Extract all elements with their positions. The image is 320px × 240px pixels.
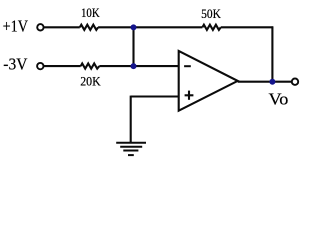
wire node A to node B vertical (132, 27, 134, 66)
terminal input -3V (37, 63, 43, 69)
wire op-amp output to terminal (238, 81, 292, 83)
wire node A to R3 (134, 26, 203, 28)
node B junction (131, 63, 137, 69)
resistor R1 10K (80, 25, 98, 30)
wire op-amp plus input to ground leg (131, 95, 179, 97)
svg-text:-3V: -3V (3, 55, 27, 74)
wire node B to op-amp inverting input (134, 65, 179, 67)
wire -3V terminal to R2 (44, 65, 81, 67)
wire R3 to right corner (221, 26, 273, 28)
wire ground vertical (130, 96, 132, 143)
svg-text:20K: 20K (80, 74, 101, 89)
terminal input +1V (37, 24, 43, 30)
op-amp U1 triangle (179, 51, 238, 111)
ground (116, 143, 146, 155)
terminal output Vo (292, 79, 298, 85)
op-amp minus pin symbol (184, 65, 191, 67)
wire R1 to node A (98, 26, 133, 28)
node A junction (131, 24, 137, 30)
wire +1V terminal to R1 (44, 26, 80, 28)
svg-text:10K: 10K (81, 5, 100, 20)
resistor R3 50K (202, 25, 220, 30)
node C output junction (269, 79, 275, 85)
resistor R2 20K (81, 64, 100, 69)
wire feedback vertical down to node C (271, 26, 273, 81)
svg-text:Vo: Vo (269, 90, 289, 109)
op-amp plus pin symbol (185, 91, 194, 100)
wire R2 to node B (99, 65, 133, 67)
svg-text:+1V: +1V (3, 17, 28, 36)
svg-text:50K: 50K (201, 6, 221, 21)
